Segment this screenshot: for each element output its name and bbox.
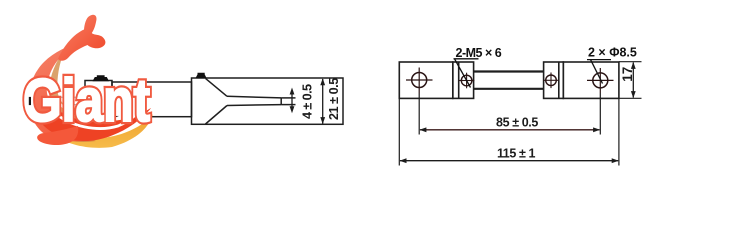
white wave stripe inner: [60, 97, 140, 121]
logo yellow crescent: [54, 114, 153, 148]
resistive bars top edge: [474, 70, 544, 72]
strip end tick: [280, 98, 282, 105]
taper lower line: [206, 106, 228, 125]
screw hole M5 left: [459, 73, 475, 89]
resistive bars bottom edge: [474, 88, 544, 90]
right screw section: [544, 62, 564, 98]
left screw section: [453, 62, 474, 98]
svg-text:115 ± 1: 115 ± 1: [497, 147, 536, 161]
hole Φ8.5 left: [406, 68, 433, 94]
svg-text:85 ± 0.5: 85 ± 0.5: [496, 116, 538, 130]
hole Φ8.5 right: [587, 68, 614, 93]
taper upper line: [206, 78, 228, 96]
right block (side view outline): [192, 78, 344, 124]
dolphin tail: [58, 15, 105, 61]
dimension 17: [619, 62, 642, 99]
dimension 4±0.5: [290, 84, 315, 119]
strip top line: [227, 96, 281, 98]
blade left end stub: [31, 97, 88, 105]
right terminal block (top view): [563, 62, 619, 98]
svg-text:4 ± 0.5: 4 ± 0.5: [301, 84, 315, 119]
left clamping screw: [93, 75, 110, 81]
svg-text:2 × Φ8.5: 2 × Φ8.5: [588, 46, 637, 60]
left terminal block (side view, mostly hidden by logo): [85, 81, 112, 125]
screw hole M5 right: [543, 73, 559, 89]
dimension 21±0.5: [320, 78, 341, 124]
dolphin fin: [37, 126, 78, 145]
svg-text:17: 17: [620, 67, 635, 82]
svg-text:2-M5 × 6: 2-M5 × 6: [456, 46, 502, 60]
fin shadow on yellow: [60, 137, 96, 142]
dolphin belly band: [42, 106, 151, 141]
white wave stripe outer: [54, 101, 146, 128]
label 2×Φ8.5 with leader: [587, 46, 637, 84]
right step line: [558, 62, 560, 98]
strip bottom line: [227, 104, 281, 107]
logo tan shadow body: [50, 48, 145, 130]
dimension 115±1: [399, 98, 619, 165]
blade left end stub: [29, 97, 31, 105]
label 2-M5×6 with leader: [454, 46, 502, 88]
dimension 85±0.5: [419, 93, 600, 135]
middle body (side view): [112, 82, 192, 117]
dolphin body: [29, 42, 152, 141]
left terminal block (top view): [399, 62, 453, 98]
left step lines: [458, 62, 460, 98]
svg-text:21 ± 0.5: 21 ± 0.5: [327, 78, 341, 120]
right clamping screw: [196, 73, 207, 78]
svg-text:Giant: Giant: [23, 67, 150, 134]
strip extension lines: [281, 97, 295, 99]
